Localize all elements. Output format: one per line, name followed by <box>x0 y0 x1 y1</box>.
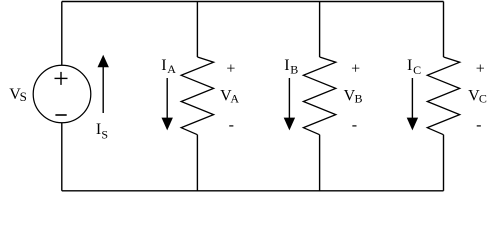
voltage source VS circle <box>33 65 91 123</box>
svg-text:B: B <box>355 92 363 106</box>
wire: branch A lower stub (RA to bottom bus) <box>196 135 198 191</box>
label IA <box>161 57 176 76</box>
wire: left branch lower segment (source bottom to bottom bus) <box>61 123 63 191</box>
wire: top bus from node over source to node over RC <box>62 1 444 3</box>
svg-text:C: C <box>413 63 421 77</box>
label VA <box>220 87 239 105</box>
wire: branch A upper stub (top bus to RA) <box>196 2 198 58</box>
label IB <box>284 57 298 77</box>
label IS <box>96 121 108 142</box>
svg-text:+: + <box>226 60 235 77</box>
wire: branch C lower stub (RC to bottom bus) <box>443 135 445 191</box>
svg-text:I: I <box>161 57 166 74</box>
resistor RB zigzag <box>303 57 335 135</box>
label VS <box>9 86 27 104</box>
current arrow IC (downward) <box>407 78 418 130</box>
svg-text:A: A <box>230 92 239 106</box>
label IC <box>407 57 421 77</box>
svg-text:-: - <box>352 117 357 134</box>
svg-text:-: - <box>476 117 481 134</box>
svg-text:S: S <box>20 89 27 104</box>
resistor RA zigzag <box>181 57 213 135</box>
label VC <box>468 87 487 105</box>
resistor RC zigzag <box>427 57 459 135</box>
wire: branch B upper stub (top bus to RB) <box>319 2 321 58</box>
svg-text:S: S <box>101 127 108 141</box>
wire: left branch upper segment (top bus to source top) <box>61 2 63 66</box>
wire: bottom bus <box>62 190 444 192</box>
svg-text:I: I <box>284 57 289 74</box>
current arrow IB (downward) <box>284 78 295 130</box>
svg-text:+: + <box>351 61 360 78</box>
svg-text:C: C <box>479 92 487 106</box>
voltage source plus sign <box>55 72 68 85</box>
label VB <box>344 87 363 105</box>
svg-text:+: + <box>476 61 485 78</box>
wire: branch C upper stub (top bus to RC) <box>443 2 445 58</box>
svg-text:-: - <box>229 117 234 134</box>
svg-text:A: A <box>167 62 176 76</box>
wire: branch B lower stub (RB to bottom bus) <box>319 135 321 191</box>
current arrow IS (upward) <box>98 55 109 113</box>
svg-text:I: I <box>407 57 412 74</box>
current arrow IA (downward) <box>162 78 173 130</box>
voltage source minus sign <box>55 114 66 116</box>
svg-text:B: B <box>290 63 298 77</box>
